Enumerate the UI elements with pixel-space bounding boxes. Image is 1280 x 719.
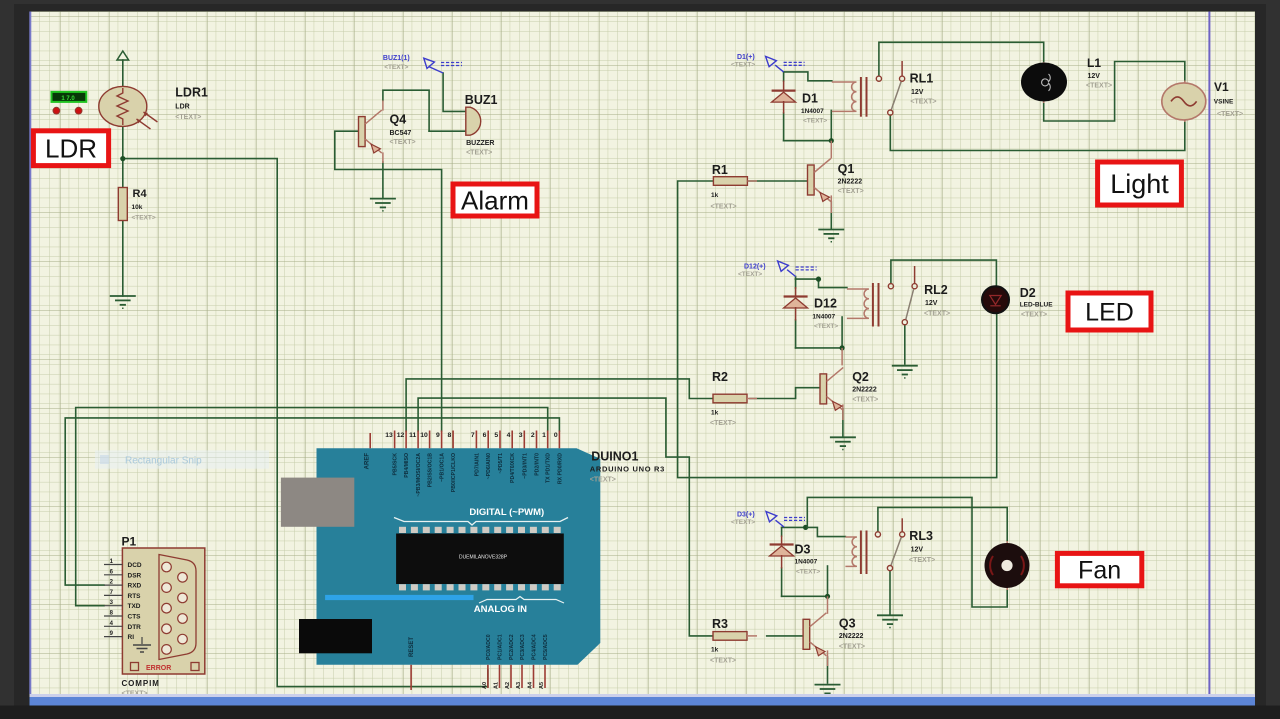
svg-text:A0: A0 (482, 682, 488, 689)
svg-text:PC0/ADC0: PC0/ADC0 (486, 634, 492, 660)
svg-text:BC547: BC547 (390, 130, 412, 137)
svg-text:Rectangular Snip: Rectangular Snip (125, 456, 202, 467)
svg-text:8: 8 (448, 432, 452, 439)
svg-text:A3: A3 (516, 682, 522, 689)
svg-text:2N2222: 2N2222 (839, 633, 864, 640)
svg-text:10: 10 (420, 432, 428, 439)
svg-text:COMPIM: COMPIM (122, 679, 160, 688)
svg-text:P1: P1 (122, 535, 137, 549)
svg-text:<TEXT>: <TEXT> (731, 62, 755, 69)
svg-text:<TEXT>: <TEXT> (924, 311, 950, 318)
svg-text:A4: A4 (528, 681, 534, 689)
svg-text:Alarm: Alarm (461, 185, 529, 215)
svg-text:1k: 1k (711, 647, 719, 654)
svg-text:12V: 12V (1088, 73, 1101, 80)
svg-text:<TEXT>: <TEXT> (1217, 111, 1243, 118)
svg-text:RL2: RL2 (924, 283, 948, 297)
svg-text:TX PD1/TXD: TX PD1/TXD (546, 453, 552, 483)
svg-text:1 7.0: 1 7.0 (61, 96, 75, 102)
svg-text:R3: R3 (712, 617, 728, 631)
svg-text:BUZ1: BUZ1 (465, 93, 498, 107)
svg-text:D12: D12 (814, 297, 837, 311)
svg-text:1N4007: 1N4007 (812, 313, 835, 320)
svg-text:<TEXT>: <TEXT> (838, 188, 864, 195)
svg-text:12V: 12V (911, 89, 924, 96)
svg-text:0: 0 (554, 432, 558, 439)
svg-text:RX PD0/RXD: RX PD0/RXD (557, 453, 563, 484)
svg-text:L1: L1 (1087, 56, 1101, 70)
svg-text:11: 11 (409, 432, 416, 439)
svg-text:D1(+): D1(+) (737, 54, 755, 61)
svg-text:BUZ1(1): BUZ1(1) (383, 55, 410, 62)
svg-text:2N2222: 2N2222 (838, 178, 863, 185)
svg-text:<TEXT>: <TEXT> (710, 658, 736, 665)
svg-text:Light: Light (1110, 169, 1169, 199)
svg-text:<TEXT>: <TEXT> (814, 323, 838, 330)
svg-text:PB5/SCK: PB5/SCK (393, 453, 399, 476)
svg-text:12V: 12V (911, 547, 924, 554)
svg-text:<TEXT>: <TEXT> (803, 118, 827, 125)
svg-text:RESET: RESET (409, 637, 415, 657)
svg-text:RXD: RXD (128, 583, 142, 590)
svg-text:Q2: Q2 (852, 370, 869, 384)
svg-text:R4: R4 (133, 188, 148, 200)
svg-text:<TEXT>: <TEXT> (910, 99, 936, 106)
svg-text:LDR: LDR (175, 103, 189, 110)
svg-text:<TEXT>: <TEXT> (852, 396, 878, 403)
svg-text:<TEXT>: <TEXT> (175, 114, 201, 121)
svg-text:D1: D1 (802, 92, 818, 106)
svg-text:12: 12 (397, 432, 405, 439)
svg-text:PC3/ADC3: PC3/ADC3 (520, 634, 526, 660)
svg-text:DUINO1: DUINO1 (591, 450, 638, 464)
svg-text:<TEXT>: <TEXT> (390, 139, 416, 146)
svg-text:CTS: CTS (128, 614, 142, 621)
svg-text:RL3: RL3 (909, 529, 933, 543)
svg-text:6: 6 (483, 432, 487, 439)
svg-text:4: 4 (507, 432, 511, 439)
svg-text:1k: 1k (711, 192, 719, 199)
svg-text:<TEXT>: <TEXT> (909, 557, 935, 564)
svg-text:3: 3 (519, 432, 523, 439)
svg-text:12V: 12V (925, 300, 938, 307)
svg-text:RI: RI (128, 634, 135, 641)
svg-text:PC2/ADC2: PC2/ADC2 (509, 634, 515, 660)
svg-text:~PD3/INT1: ~PD3/INT1 (522, 453, 528, 479)
svg-text:Q3: Q3 (839, 617, 856, 631)
svg-text:PC5/ADC5: PC5/ADC5 (543, 634, 549, 660)
svg-text:2: 2 (531, 432, 535, 439)
svg-text:BUZZER: BUZZER (466, 140, 494, 147)
svg-text:PD2/INT0: PD2/INT0 (535, 453, 541, 476)
svg-text:A5: A5 (539, 682, 545, 689)
svg-text:D3: D3 (795, 543, 811, 557)
svg-text:VSINE: VSINE (1214, 98, 1234, 105)
svg-text:A1: A1 (494, 682, 500, 689)
svg-text:LDR1: LDR1 (175, 86, 208, 100)
svg-text:ARDUINO UNO R3: ARDUINO UNO R3 (590, 465, 665, 474)
svg-text:<TEXT>: <TEXT> (796, 569, 820, 576)
svg-text:PB4/MISO: PB4/MISO (404, 453, 410, 478)
svg-text:<TEXT>: <TEXT> (132, 215, 156, 222)
svg-text:<TEXT>: <TEXT> (731, 519, 755, 526)
svg-text:LED-BLUE: LED-BLUE (1020, 302, 1054, 309)
svg-text:D12(+): D12(+) (744, 264, 766, 271)
svg-text:RL1: RL1 (910, 72, 934, 86)
svg-text:5: 5 (494, 432, 498, 439)
svg-text:D3(+): D3(+) (737, 512, 755, 519)
svg-text:PD4/T0/XCK: PD4/T0/XCK (510, 453, 516, 483)
svg-text:R1: R1 (712, 163, 728, 177)
svg-text:DSR: DSR (128, 572, 142, 579)
svg-text:<TEXT>: <TEXT> (711, 204, 737, 211)
svg-text:DIGITAL (~PWM): DIGITAL (~PWM) (469, 507, 544, 518)
svg-text:TXD: TXD (128, 603, 141, 610)
svg-text:R2: R2 (712, 370, 728, 384)
svg-text:10k: 10k (132, 204, 143, 211)
svg-text:<TEXT>: <TEXT> (590, 477, 616, 484)
svg-text:<TEXT>: <TEXT> (839, 644, 865, 651)
svg-text:~PD5/T1: ~PD5/T1 (498, 453, 504, 474)
svg-text:DTR: DTR (128, 624, 142, 631)
svg-text:PD7/AIN1: PD7/AIN1 (474, 453, 480, 476)
svg-text:<TEXT>: <TEXT> (466, 150, 492, 157)
svg-text:D2: D2 (1020, 286, 1036, 300)
svg-text:9: 9 (436, 432, 440, 439)
svg-text:ANALOG IN: ANALOG IN (474, 604, 527, 615)
svg-text:PC1/ADC1: PC1/ADC1 (498, 634, 504, 660)
svg-text:V1: V1 (1214, 80, 1229, 94)
svg-text:RTS: RTS (128, 593, 142, 600)
svg-text:~PD6/AIN0: ~PD6/AIN0 (486, 453, 492, 479)
svg-text:1N4007: 1N4007 (801, 108, 824, 115)
svg-text:1: 1 (542, 432, 546, 439)
svg-text:AREF: AREF (365, 453, 371, 470)
svg-text:ERROR: ERROR (146, 665, 171, 672)
svg-text:DCD: DCD (128, 562, 142, 569)
svg-text:<TEXT>: <TEXT> (710, 420, 736, 427)
svg-text:PB2/SS/OC1B: PB2/SS/OC1B (428, 453, 434, 488)
svg-text:Q1: Q1 (838, 162, 855, 176)
svg-text:PC4/ADC4: PC4/ADC4 (532, 634, 538, 660)
svg-text:<TEXT>: <TEXT> (384, 64, 408, 71)
svg-text:~PB3/MOSI/OC2A: ~PB3/MOSI/OC2A (416, 453, 422, 497)
svg-text:2N2222: 2N2222 (852, 386, 877, 393)
svg-text:LED: LED (1085, 299, 1134, 327)
svg-text:LDR: LDR (45, 134, 97, 164)
svg-text:A2: A2 (505, 682, 511, 689)
svg-text:~PB1/OC1A: ~PB1/OC1A (440, 453, 446, 482)
svg-text:DUEMILANOVE328P: DUEMILANOVE328P (459, 555, 508, 561)
svg-text:7: 7 (471, 432, 475, 439)
svg-text:<TEXT>: <TEXT> (1021, 312, 1047, 319)
svg-text:Q4: Q4 (390, 113, 407, 127)
svg-text:1k: 1k (711, 410, 719, 417)
svg-text:<TEXT>: <TEXT> (738, 271, 762, 278)
svg-text:1N4007: 1N4007 (795, 559, 818, 566)
svg-text:13: 13 (385, 432, 393, 439)
svg-text:Fan: Fan (1078, 557, 1121, 585)
svg-text:PB0/ICP1/CLKO: PB0/ICP1/CLKO (451, 453, 457, 492)
svg-text:<TEXT>: <TEXT> (1086, 83, 1112, 90)
